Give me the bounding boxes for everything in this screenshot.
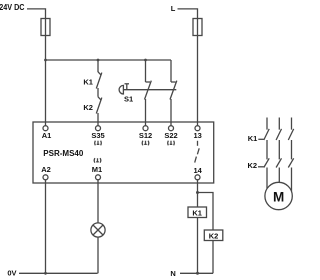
svg-text:K1: K1 — [83, 77, 93, 86]
svg-text:24V DC: 24V DC — [0, 3, 25, 12]
svg-text:K2: K2 — [83, 103, 93, 112]
svg-text:A2: A2 — [41, 165, 51, 174]
svg-text:S35: S35 — [91, 131, 104, 140]
svg-text:14: 14 — [194, 166, 203, 175]
svg-text:S12: S12 — [139, 131, 152, 140]
svg-text:A1: A1 — [42, 131, 52, 140]
svg-text:S22: S22 — [164, 131, 177, 140]
svg-text:0V: 0V — [7, 268, 16, 277]
svg-text:S1: S1 — [124, 95, 133, 104]
svg-text:M1: M1 — [92, 165, 102, 174]
svg-text:K2: K2 — [209, 231, 219, 240]
svg-text:K1: K1 — [192, 208, 202, 217]
svg-text:PSR-MS40: PSR-MS40 — [43, 149, 84, 158]
svg-text:N: N — [170, 269, 175, 278]
svg-text:K1: K1 — [248, 134, 258, 143]
svg-text:K2: K2 — [248, 161, 258, 170]
svg-text:M: M — [273, 189, 284, 204]
svg-text:L: L — [171, 4, 176, 13]
svg-text:13: 13 — [194, 131, 202, 140]
